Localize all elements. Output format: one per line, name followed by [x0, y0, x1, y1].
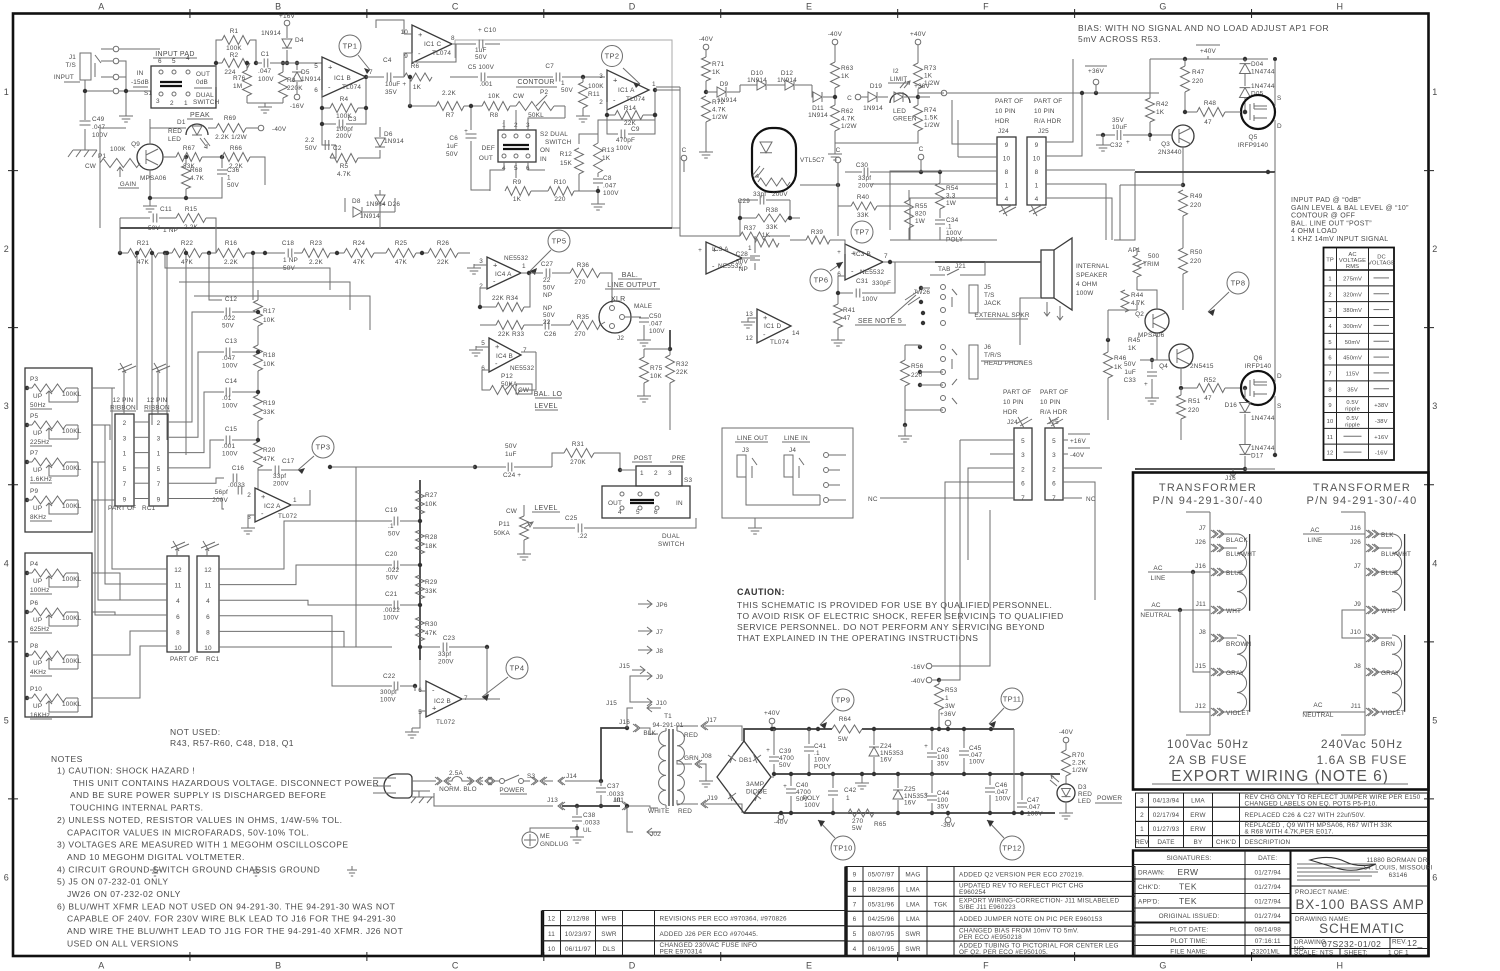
- feedback IC1C: [412, 44, 456, 62]
- svg-text:R26: R26: [437, 240, 450, 247]
- svg-text:6) BLU/WHT XFMR LEAD NOT USED: 6) BLU/WHT XFMR LEAD NOT USED ON 94-291-…: [57, 901, 395, 911]
- svg-text:4: 4: [853, 946, 857, 953]
- svg-text:.01: .01: [222, 395, 232, 402]
- svg-text:RMS: RMS: [1346, 264, 1359, 270]
- resistor R65: [848, 809, 874, 817]
- capacitor C47: [1021, 774, 1023, 800]
- svg-text:2: 2: [1021, 466, 1025, 473]
- wires power amp interconnect: [1114, 185, 1120, 240]
- svg-text:CHK'D: CHK'D: [1216, 839, 1237, 846]
- svg-text:01/27/94: 01/27/94: [1255, 898, 1282, 905]
- svg-text:220: 220: [1188, 407, 1200, 414]
- svg-text:J10: J10: [1350, 629, 1361, 636]
- svg-text:PEAK: PEAK: [190, 112, 210, 119]
- svg-text:C4: C4: [383, 57, 392, 64]
- resistor R56: [901, 360, 910, 386]
- svg-text:J19: J19: [707, 795, 718, 802]
- svg-text:TL074: TL074: [342, 84, 361, 91]
- svg-text:100V: 100V: [1027, 811, 1043, 818]
- svg-text:1uF: 1uF: [446, 143, 458, 150]
- resistor R26: [416, 252, 428, 254]
- svg-text:.022: .022: [222, 315, 235, 322]
- svg-text:INPUT: INPUT: [54, 74, 74, 81]
- output rail to speaker: [1135, 171, 1275, 173]
- svg-text:B: B: [275, 2, 282, 12]
- svg-text:T/R/S: T/R/S: [984, 352, 1001, 359]
- svg-text:10/23/97: 10/23/97: [565, 931, 592, 938]
- svg-text:9: 9: [157, 497, 161, 504]
- svg-text:TP3: TP3: [316, 443, 331, 452]
- svg-text:200V: 200V: [273, 481, 289, 488]
- svg-text:1.6A SB FUSE: 1.6A SB FUSE: [1317, 753, 1408, 767]
- svg-text:1 NP: 1 NP: [163, 227, 178, 234]
- svg-text:BLK: BLK: [643, 730, 656, 737]
- circuit ground under S1: [125, 98, 127, 112]
- svg-text:MAG: MAG: [905, 871, 920, 878]
- test point TP10: [831, 836, 855, 860]
- svg-text:5: 5: [481, 340, 485, 347]
- switch S2: [498, 130, 536, 162]
- svg-text:4: 4: [1035, 196, 1039, 203]
- svg-text:12: 12: [745, 335, 753, 342]
- svg-text:7: 7: [853, 901, 857, 908]
- svg-text:47K: 47K: [425, 630, 438, 637]
- svg-text:C33: C33: [1124, 377, 1137, 384]
- svg-text:5: 5: [314, 63, 318, 70]
- svg-text:22K: 22K: [437, 259, 450, 266]
- svg-text:J17: J17: [706, 717, 717, 724]
- svg-text:PER E970314: PER E970314: [660, 949, 703, 956]
- svg-text:TL074: TL074: [432, 50, 451, 57]
- chassis ground: [84, 129, 86, 150]
- resistor R36: [552, 272, 570, 274]
- header lower wires left: [945, 440, 1014, 620]
- svg-text:J16: J16: [1195, 563, 1206, 570]
- test-point voltage table: [1324, 248, 1395, 461]
- resistor R29: [416, 575, 425, 599]
- svg-text:100KL: 100KL: [62, 503, 82, 510]
- svg-text:C31: C31: [856, 278, 869, 285]
- svg-text:TP6: TP6: [814, 276, 829, 285]
- svg-text:C19: C19: [385, 507, 398, 514]
- svg-text:AC: AC: [1153, 565, 1162, 572]
- capacitor C42: [832, 774, 834, 806]
- op-amp IC1 D: [757, 309, 791, 343]
- svg-text:100V: 100V: [258, 76, 274, 83]
- diodes D7 D26 row: [344, 198, 346, 212]
- svg-text:270: 270: [574, 331, 586, 338]
- svg-text:PRE: PRE: [672, 455, 686, 462]
- svg-text:+: +: [924, 743, 928, 750]
- svg-text:50V: 50V: [1124, 361, 1137, 368]
- resistor R76: [243, 70, 252, 96]
- J9-J10 jumper: [1342, 610, 1365, 638]
- svg-text:4.7K: 4.7K: [190, 175, 204, 182]
- svg-text:R10: R10: [554, 179, 567, 186]
- lead J10: [1366, 634, 1373, 642]
- svg-text:J1: J1: [69, 54, 76, 61]
- resistor R7: [436, 102, 464, 111]
- ground IC4B: [476, 347, 489, 350]
- svg-text:9: 9: [404, 53, 408, 60]
- svg-text:C24 +: C24 +: [503, 472, 521, 479]
- svg-text:7: 7: [157, 481, 161, 488]
- svg-text:.022: .022: [386, 567, 399, 574]
- J19 chevron: [701, 800, 708, 808]
- svg-text:C11: C11: [160, 206, 172, 213]
- transistor Q2: [1145, 309, 1169, 333]
- svg-text:R46: R46: [1114, 355, 1127, 362]
- svg-text:RED: RED: [678, 808, 692, 815]
- svg-text:100V: 100V: [222, 451, 238, 458]
- svg-text:VIOLET: VIOLET: [1226, 710, 1250, 717]
- svg-text:P12: P12: [501, 373, 513, 380]
- svg-text:PART OF: PART OF: [995, 98, 1023, 105]
- svg-text:9: 9: [1328, 403, 1331, 409]
- svg-text:04/25/96: 04/25/96: [868, 916, 895, 923]
- svg-text:NP: NP: [543, 305, 552, 312]
- right column down: [1013, 729, 1015, 813]
- svg-text:R42: R42: [1156, 101, 1169, 108]
- svg-text:RIBBON: RIBBON: [110, 405, 136, 412]
- svg-text:BLU/WHT: BLU/WHT: [1226, 551, 1256, 558]
- svg-text:C27: C27: [541, 261, 554, 268]
- svg-text:UP: UP: [33, 430, 42, 437]
- wire q3 r49: [1181, 183, 1185, 187]
- svg-text:R/A HDR: R/A HDR: [1034, 118, 1062, 125]
- svg-text:ERW: ERW: [1190, 826, 1206, 833]
- svg-text:3: 3: [4, 401, 10, 411]
- node C terminal preamp: [681, 155, 687, 161]
- svg-text:8: 8: [1328, 387, 1331, 393]
- svg-text:2) UNLESS NOTED, RESISTOR VALU: 2) UNLESS NOTED, RESISTOR VALUES IN OHMS…: [57, 815, 343, 825]
- svg-text:R24: R24: [353, 240, 366, 247]
- svg-text:C5 100V: C5 100V: [468, 64, 495, 71]
- resistor R27: [416, 490, 425, 514]
- svg-text:C37: C37: [607, 783, 620, 790]
- svg-text:IRFP9140: IRFP9140: [1238, 142, 1269, 149]
- capacitor C9: [607, 115, 655, 134]
- svg-text:.0022: .0022: [383, 607, 400, 614]
- svg-text:01/27/93: 01/27/93: [1153, 826, 1180, 833]
- svg-text:275mV: 275mV: [1343, 276, 1362, 282]
- lead J26: [1366, 544, 1373, 552]
- svg-text:3: 3: [668, 470, 672, 477]
- svg-text:+16V: +16V: [1374, 435, 1388, 441]
- svg-text:WHT: WHT: [1381, 608, 1396, 615]
- svg-text:Q9: Q9: [131, 141, 140, 148]
- connector arrows power: [485, 777, 492, 785]
- svg-text:CONTOUR: CONTOUR: [517, 79, 554, 86]
- svg-text:1W: 1W: [946, 200, 957, 207]
- svg-text:IN: IN: [137, 70, 144, 77]
- svg-text:DB1: DB1: [739, 757, 752, 764]
- svg-text:SCHEMATIC: SCHEMATIC: [1319, 921, 1405, 936]
- feedback R4 100K: [322, 77, 366, 108]
- svg-text:R62: R62: [841, 108, 854, 115]
- op-amp IC3 A: [706, 242, 742, 274]
- svg-text:XLR: XLR: [611, 296, 626, 303]
- svg-text:INPUT PAD @ “0dB”: INPUT PAD @ “0dB”: [1291, 197, 1361, 204]
- svg-text:WHITE: WHITE: [648, 808, 670, 815]
- wire speaker rail: [935, 261, 1041, 263]
- svg-text:10: 10: [1327, 419, 1334, 425]
- wires around S2: [504, 106, 565, 130]
- svg-text:J9: J9: [656, 674, 663, 681]
- svg-text:RED: RED: [168, 128, 182, 135]
- svg-text:EXPORT WIRING (NOTE 6): EXPORT WIRING (NOTE 6): [1171, 768, 1389, 785]
- svg-text:JACK: JACK: [984, 300, 1002, 307]
- header feed wires left: [870, 100, 997, 240]
- svg-text:02/17/94: 02/17/94: [1153, 812, 1180, 819]
- svg-text:-: -: [261, 509, 264, 518]
- svg-text:4: 4: [1005, 196, 1009, 203]
- svg-text:1N4744: 1N4744: [1251, 83, 1275, 90]
- svg-text:R28: R28: [425, 534, 438, 541]
- svg-text:TP12: TP12: [1002, 844, 1021, 853]
- svg-text:4: 4: [1432, 558, 1438, 568]
- svg-text:10uF: 10uF: [1112, 124, 1127, 131]
- svg-text:.047: .047: [603, 183, 616, 190]
- svg-text:IC4 B: IC4 B: [496, 353, 513, 360]
- resistor R21: [128, 249, 158, 258]
- svg-text:10 PIN: 10 PIN: [1003, 399, 1024, 406]
- svg-text:TEK: TEK: [1179, 881, 1197, 891]
- T1 secondary winding: [677, 731, 684, 805]
- resistor R6: [404, 73, 432, 81]
- svg-text:+: +: [924, 791, 928, 798]
- svg-text:BLK: BLK: [1381, 532, 1394, 539]
- ribbon fan upper: [168, 312, 224, 422]
- svg-text:R76: R76: [233, 75, 246, 82]
- svg-text:100V: 100V: [383, 615, 399, 622]
- capacitor C38: [576, 806, 578, 815]
- svg-text:IC1 B: IC1 B: [334, 75, 351, 82]
- svg-text:C12: C12: [225, 296, 238, 303]
- svg-text:SIGNATURES:: SIGNATURES:: [1166, 855, 1211, 862]
- ground IC4A: [474, 265, 487, 268]
- svg-text:DIODE: DIODE: [746, 789, 767, 796]
- svg-text:+: +: [763, 313, 768, 322]
- diode D7 vertical: [375, 195, 385, 204]
- svg-text:6: 6: [1052, 481, 1056, 488]
- capacitor C26: [545, 321, 549, 330]
- svg-text:10uF +: 10uF +: [385, 81, 406, 88]
- header J25 lower box: [1045, 428, 1063, 500]
- test point TP1: [339, 35, 361, 57]
- svg-text:E: E: [806, 961, 813, 971]
- svg-text:4 OHM LOAD: 4 OHM LOAD: [1291, 228, 1337, 235]
- svg-text:IC2 B: IC2 B: [434, 698, 451, 705]
- svg-text:MPSA06: MPSA06: [140, 175, 167, 182]
- svg-text:2N3440: 2N3440: [1158, 149, 1182, 156]
- eq pots box upper: [25, 368, 92, 532]
- internal speaker: [1041, 250, 1054, 298]
- svg-text:H: H: [1337, 2, 1344, 12]
- svg-text:05/07/97: 05/07/97: [868, 871, 895, 878]
- resistor R73: [914, 63, 923, 89]
- svg-text:+: +: [837, 249, 841, 256]
- svg-text:NC: NC: [868, 496, 878, 503]
- svg-text:05/31/96: 05/31/96: [868, 901, 895, 908]
- capacitor C16: [233, 474, 237, 483]
- svg-text:CHK'D:: CHK'D:: [1138, 884, 1160, 891]
- svg-text:+: +: [418, 30, 423, 39]
- lead J16: [1366, 530, 1373, 538]
- wires pots lower to ribbon: [92, 573, 167, 698]
- capacitor 2.2 50V: [322, 124, 330, 145]
- svg-text:3: 3: [123, 435, 127, 442]
- svg-text:C: C: [452, 2, 459, 12]
- ground line jacks: [754, 518, 756, 524]
- capacitor C18: [288, 249, 292, 258]
- svg-text:CW: CW: [85, 163, 97, 170]
- resistor R42: [1149, 59, 1151, 98]
- svg-text:1 KHZ 14mV INPUT SIGNAL: 1 KHZ 14mV INPUT SIGNAL: [1291, 236, 1388, 243]
- svg-text:47K: 47K: [395, 259, 408, 266]
- svg-text:+36V: +36V: [940, 711, 956, 718]
- svg-text:1: 1: [1140, 826, 1144, 833]
- zener Z24: [873, 729, 875, 745]
- svg-text:50V: 50V: [561, 87, 574, 94]
- svg-text:IN: IN: [540, 156, 547, 163]
- svg-text:100V: 100V: [969, 759, 985, 766]
- svg-text:RIBBON: RIBBON: [144, 405, 170, 412]
- svg-text:01/27/94: 01/27/94: [1255, 884, 1282, 891]
- resistor R31: [530, 453, 564, 467]
- svg-text:VIOLET: VIOLET: [1381, 710, 1405, 717]
- svg-text:12: 12: [548, 916, 556, 923]
- transistor Q9: [137, 144, 163, 170]
- svg-text:TP9: TP9: [836, 696, 851, 705]
- svg-text:50V: 50V: [543, 285, 556, 292]
- svg-text:J15: J15: [619, 663, 630, 670]
- svg-text:NEUTRAL: NEUTRAL: [1140, 612, 1171, 619]
- svg-text:.001: .001: [479, 81, 492, 88]
- resistor R30: [416, 617, 425, 641]
- svg-text:R43, R57-R60, C48, D18, Q1: R43, R57-R60, C48, D18, Q1: [170, 738, 294, 748]
- svg-text:S/BE J11 E960223: S/BE J11 E960223: [959, 904, 1016, 911]
- svg-text:C23: C23: [443, 635, 456, 642]
- svg-text:3: 3: [1021, 452, 1025, 459]
- svg-text:6: 6: [158, 58, 162, 65]
- svg-text:+: +: [464, 128, 468, 135]
- svg-text:2: 2: [123, 420, 127, 427]
- svg-text:E960254: E960254: [959, 889, 986, 896]
- svg-text:100pf: 100pf: [336, 126, 353, 133]
- svg-text:THIS UNIT CONTAINS HAZARDOUS V: THIS UNIT CONTAINS HAZARDOUS VOLTAGE. DI…: [73, 778, 379, 788]
- capacitor C36: [221, 157, 223, 168]
- AC plug: [384, 774, 412, 798]
- svg-text:3W: 3W: [945, 703, 956, 710]
- svg-text:R6: R6: [411, 63, 420, 70]
- svg-text:5W: 5W: [838, 736, 849, 743]
- svg-text:3: 3: [1432, 401, 1438, 411]
- svg-text:D12: D12: [781, 70, 794, 77]
- svg-text:1/2W: 1/2W: [712, 114, 728, 121]
- svg-text:12: 12: [174, 567, 182, 574]
- vertical to T1 top: [601, 728, 627, 781]
- op-amp IC4 A: [487, 257, 521, 289]
- svg-text:IC1 D: IC1 D: [764, 323, 782, 330]
- svg-text:AND BE SURE POWER SUPPLY IS DI: AND BE SURE POWER SUPPLY IS DISCHARGED B…: [70, 790, 326, 800]
- svg-text:ME: ME: [540, 833, 550, 840]
- svg-text:C1: C1: [261, 51, 270, 58]
- svg-text:1: 1: [652, 81, 656, 88]
- svg-text:2: 2: [599, 99, 603, 106]
- svg-text:AC: AC: [1313, 702, 1322, 709]
- svg-text:7: 7: [123, 481, 127, 488]
- svg-text:GAIN: GAIN: [120, 181, 137, 188]
- svg-text:0.5V: 0.5V: [1346, 416, 1358, 422]
- resistor R10: [548, 187, 574, 196]
- svg-text:3: 3: [1140, 798, 1144, 805]
- svg-text:8: 8: [176, 629, 180, 636]
- svg-text:INTERNAL: INTERNAL: [1076, 263, 1109, 270]
- svg-text:1 NP: 1 NP: [283, 257, 298, 264]
- svg-text:10: 10: [1033, 156, 1041, 163]
- resistor R50: [1179, 248, 1188, 274]
- svg-text:8: 8: [206, 629, 210, 636]
- svg-text:100KL: 100KL: [62, 428, 82, 435]
- svg-text:5: 5: [1432, 715, 1438, 725]
- svg-text:10: 10: [204, 645, 212, 652]
- svg-text:R37: R37: [744, 225, 757, 232]
- svg-text:R63: R63: [841, 65, 854, 72]
- export wiring box: [1133, 473, 1429, 790]
- svg-text:IC1 A: IC1 A: [618, 87, 635, 94]
- svg-text:+: +: [1144, 381, 1148, 388]
- svg-text:1: 1: [1005, 183, 1009, 190]
- svg-text:220: 220: [911, 372, 923, 379]
- svg-text:TOUCHING INTERNAL PARTS.: TOUCHING INTERNAL PARTS.: [70, 803, 204, 813]
- jack contact circles: [113, 46, 119, 52]
- svg-text:1/2W: 1/2W: [924, 122, 940, 129]
- svg-text:1K: 1K: [513, 196, 522, 203]
- resistor R39-1K: [742, 257, 755, 259]
- svg-text:P1: P1: [98, 153, 106, 160]
- svg-text:220: 220: [1190, 202, 1202, 209]
- svg-text:1) CAUTION: SHOCK HAZARD !: 1) CAUTION: SHOCK HAZARD !: [57, 766, 195, 776]
- svg-text:BAL. LINE OUT “POST”: BAL. LINE OUT “POST”: [1291, 220, 1372, 227]
- resistor R9: [505, 187, 531, 196]
- svg-text:LED: LED: [168, 136, 181, 143]
- svg-text:OF Q2. PER ECO #E950105.: OF Q2. PER ECO #E950105.: [959, 949, 1048, 956]
- svg-text:P8: P8: [30, 643, 38, 650]
- svg-text:8: 8: [1005, 169, 1009, 176]
- svg-text:9: 9: [1035, 142, 1039, 149]
- logo & address: [1297, 864, 1378, 880]
- svg-text:D11: D11: [812, 105, 824, 112]
- svg-text:5: 5: [1328, 340, 1331, 346]
- svg-text:LINE OUTPUT: LINE OUTPUT: [607, 282, 657, 289]
- capacitor C17: [258, 469, 272, 471]
- svg-text:2: 2: [1052, 466, 1056, 473]
- svg-text:J11: J11: [1351, 703, 1362, 710]
- svg-text:10: 10: [174, 645, 182, 652]
- -40V terminal mid: [926, 677, 932, 683]
- svg-text:50V: 50V: [305, 145, 318, 152]
- svg-text:I2: I2: [893, 68, 899, 75]
- resistor R22: [172, 249, 202, 258]
- svg-text:33pf: 33pf: [753, 191, 766, 198]
- svg-text:J11: J11: [1196, 601, 1207, 608]
- svg-text:C40: C40: [796, 782, 809, 789]
- svg-text:1: 1: [184, 100, 188, 107]
- resistor R69: [208, 127, 216, 129]
- svg-text:DRAWN:: DRAWN:: [1138, 869, 1165, 876]
- svg-text:100W: 100W: [1076, 290, 1094, 297]
